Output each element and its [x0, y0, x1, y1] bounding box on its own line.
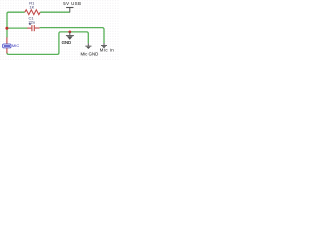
power terminal 5V USB — [66, 8, 73, 13]
wire node A to C1 — [7, 27, 28, 29]
microphone MIC body — [3, 44, 11, 48]
ground terminal GND — [62, 32, 74, 45]
svg-text:GND: GND — [62, 40, 72, 45]
junction node A — [5, 27, 8, 30]
wire top-left (node A to R1 and down to junction) — [7, 12, 25, 28]
svg-text:5V USB: 5V USB — [63, 1, 81, 6]
wire R1 to 5V USB — [40, 11, 70, 13]
microphone MIC pins — [6, 37, 8, 53]
svg-text:22u: 22u — [29, 19, 36, 24]
svg-text:MIC: MIC — [12, 43, 19, 48]
resistor R1 — [25, 10, 40, 15]
wire node A down to MIC — [6, 28, 8, 37]
svg-text:1K: 1K — [29, 5, 34, 10]
terminal Mic in — [100, 43, 115, 53]
wire C1 to Mic in terminal — [40, 28, 104, 43]
junction node GND — [68, 31, 71, 34]
wire MIC to ground loop to Mic GND terminal — [7, 32, 88, 55]
terminal Mic GND — [80, 43, 98, 56]
svg-text:Mic GND: Mic GND — [80, 52, 98, 57]
svg-text:Mic in: Mic in — [100, 48, 115, 53]
capacitor C1 — [27, 25, 39, 31]
polarity plus of C1 — [29, 23, 31, 25]
